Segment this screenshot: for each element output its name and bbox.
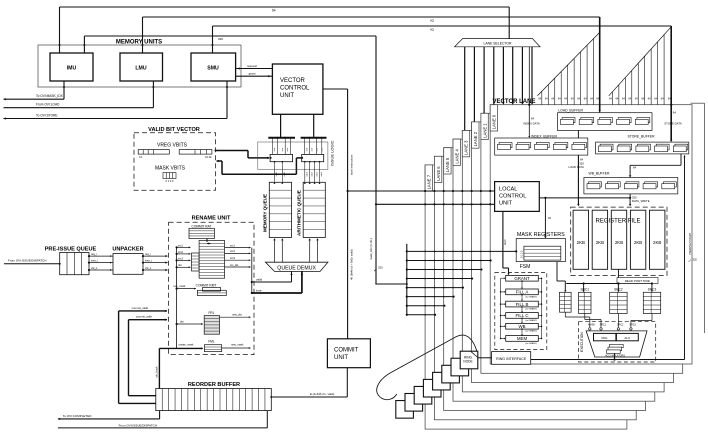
table RAT bbox=[199, 241, 225, 279]
svg-text:UNIT: UNIT bbox=[280, 93, 294, 99]
bus mask bits to lanes bbox=[375, 283, 407, 285]
svg-text:instr: instr bbox=[320, 147, 323, 151]
svg-text:COMMIT RMT: COMMIT RMT bbox=[196, 283, 217, 287]
svg-text:start: start bbox=[503, 239, 507, 245]
wire From OVI:ISSUE/DISPATCH into pre-issue queue bbox=[4, 263, 60, 265]
svg-text:40: 40 bbox=[548, 216, 552, 220]
svg-text:DATA_WRITE: DATA_WRITE bbox=[632, 199, 650, 203]
svg-text:STORE_BUFFER: STORE_BUFFER bbox=[628, 134, 656, 138]
wire vreg vbits to issue logic bbox=[215, 150, 217, 152]
svg-text:64: 64 bbox=[635, 97, 638, 100]
svg-text:instr: instr bbox=[305, 147, 308, 151]
svg-text:vld_o: vld_o bbox=[145, 266, 152, 270]
svg-text:SRC1: SRC1 bbox=[600, 323, 607, 326]
svg-text:VECTOR: VECTOR bbox=[280, 78, 306, 84]
svg-text:64: 64 bbox=[628, 97, 631, 100]
svg-text:64: 64 bbox=[564, 97, 567, 100]
ring node boxes bbox=[396, 401, 414, 419]
svg-text:REGISTER FILE: REGISTER FILE bbox=[595, 219, 640, 225]
svg-text:valid: valid bbox=[307, 172, 309, 176]
svg-text:valid: valid bbox=[311, 172, 313, 176]
register stack MASK bbox=[560, 292, 572, 312]
svg-text:64: 64 bbox=[661, 97, 664, 100]
svg-text:LOAD_BUFFER: LOAD_BUFFER bbox=[558, 109, 583, 113]
container RENAME UNIT bbox=[169, 222, 254, 354]
svg-text:INDEX DATA: INDEX DATA bbox=[523, 122, 540, 126]
bus bar right bbox=[301, 137, 327, 139]
svg-text:VSEW/VL/VSTART: VSEW/VL/VSTART bbox=[688, 232, 692, 255]
svg-text:31 32: 31 32 bbox=[205, 155, 212, 159]
svg-text:QUEUE DEMUX: QUEUE DEMUX bbox=[277, 265, 316, 271]
svg-text:To OVI:STORE: To OVI:STORE bbox=[36, 113, 58, 117]
svg-text:ARITHMETIC QUEUE: ARITHMETIC QUEUE bbox=[297, 190, 302, 236]
svg-text:SRC3: SRC3 bbox=[648, 288, 657, 292]
fsm left rail bbox=[500, 278, 502, 338]
svg-text:LANE 1: LANE 1 bbox=[482, 123, 487, 138]
wires stacks to execution bbox=[564, 312, 566, 317]
block MUL bbox=[594, 333, 616, 340]
svg-text:instr: instr bbox=[315, 147, 318, 151]
svg-text:src3: src3 bbox=[178, 256, 183, 260]
svg-text:GRANT: GRANT bbox=[514, 276, 530, 281]
container EXECUTION bbox=[579, 322, 656, 362]
svg-text:CONTROL: CONTROL bbox=[499, 194, 526, 200]
svg-text:valid: valid bbox=[316, 172, 318, 176]
svg-text:valid: valid bbox=[276, 172, 278, 176]
wire To OVI:MASK_IDX bbox=[63, 81, 65, 99]
container MEMORY UNITS bbox=[38, 45, 241, 87]
svg-text:LOAD DATA: LOAD DATA bbox=[568, 165, 584, 169]
svg-text:use_mask: use_mask bbox=[174, 284, 187, 288]
pins issue to arithmetic queue bbox=[304, 162, 306, 182]
wire From OVI:LOAD bbox=[4, 107, 154, 109]
svg-text:READ PORT 5'64b: READ PORT 5'64b bbox=[625, 279, 651, 283]
svg-text:UNIT: UNIT bbox=[499, 201, 513, 207]
arrows demux to queues bbox=[274, 240, 276, 263]
container issue logic bbox=[258, 142, 328, 169]
svg-text:instr: instr bbox=[256, 288, 262, 292]
svg-text:LANE 4: LANE 4 bbox=[454, 148, 459, 163]
ring node front bbox=[460, 351, 478, 369]
wire issue logic to mask vbits bbox=[296, 157, 301, 159]
svg-text:grant: grant bbox=[249, 72, 256, 76]
wire data write 320 into register file bbox=[629, 194, 631, 205]
svg-text:To OVI:MASK_IDX: To OVI:MASK_IDX bbox=[36, 94, 64, 98]
svg-text:LOCAL: LOCAL bbox=[499, 187, 517, 193]
block accumulators bbox=[610, 344, 624, 347]
wire create_mask bbox=[159, 347, 202, 349]
svg-text:instr: instr bbox=[310, 147, 313, 151]
svg-text:WB: WB bbox=[518, 324, 525, 329]
svg-text:64: 64 bbox=[648, 97, 651, 100]
svg-text:I/Q: I/Q bbox=[430, 19, 435, 23]
svg-text:64: 64 bbox=[272, 9, 276, 13]
block COMMIT UNIT bbox=[327, 339, 370, 368]
svg-text:SRC2: SRC2 bbox=[614, 288, 623, 292]
svg-text:FILL B: FILL B bbox=[516, 302, 529, 307]
svg-text:320: 320 bbox=[693, 257, 698, 261]
svg-text:instr: instr bbox=[286, 147, 289, 151]
svg-text:src2: src2 bbox=[230, 249, 235, 253]
execution trapezoid bbox=[586, 331, 647, 357]
svg-text:VREG VBITS: VREG VBITS bbox=[157, 142, 188, 148]
wire start instruction bbox=[323, 88, 348, 90]
svg-text:start instruction: start instruction bbox=[350, 154, 354, 175]
svg-text:WB_BUFFER: WB_BUFFER bbox=[589, 172, 610, 176]
svg-text:dst: dst bbox=[178, 263, 182, 267]
container VALID BIT VECTOR bbox=[134, 133, 216, 191]
block SMU bbox=[191, 53, 236, 81]
svg-text:RENAME UNIT: RENAME UNIT bbox=[192, 216, 231, 222]
svg-text:new_dst: new_dst bbox=[232, 312, 242, 316]
svg-text:LANE 2: LANE 2 bbox=[473, 131, 478, 146]
svg-text:req_i: req_i bbox=[91, 252, 97, 256]
wire rob_back bbox=[158, 348, 160, 388]
svg-text:dst: dst bbox=[180, 319, 184, 323]
fsm state transition dots bbox=[521, 281, 523, 289]
svg-text:FILL A: FILL A bbox=[516, 290, 529, 295]
svg-text:64: 64 bbox=[654, 97, 657, 100]
svg-text:E (4+64b id + valid): E (4+64b id + valid) bbox=[310, 392, 334, 396]
svg-text:FRL: FRL bbox=[208, 311, 214, 315]
svg-text:64: 64 bbox=[641, 97, 644, 100]
svg-text:To OVI:COMPLETED: To OVI:COMPLETED bbox=[63, 414, 93, 418]
svg-text:ACCUMULATORS: ACCUMULATORS bbox=[605, 354, 625, 357]
svg-text:From OVI:ISSUE/DISPATCH: From OVI:ISSUE/DISPATCH bbox=[8, 259, 46, 263]
block REGISTER FILE bbox=[571, 207, 667, 275]
svg-text:64: 64 bbox=[615, 97, 618, 100]
wire load data bold into LOAD_BUFFER bbox=[599, 17, 601, 111]
svg-text:CONTROL: CONTROL bbox=[280, 86, 310, 92]
wire imu line into LCU bbox=[376, 203, 495, 205]
svg-text:MASK REGISTERS: MASK REGISTERS bbox=[517, 232, 565, 238]
wire LCU to mask registers bbox=[539, 197, 630, 199]
wire To OVI:STORE bbox=[4, 118, 228, 120]
svg-text:I/Q: I/Q bbox=[430, 28, 435, 32]
block LMU bbox=[120, 53, 163, 81]
wire mask registers to mask read stack bbox=[556, 262, 558, 281]
wire LCU to FSM start bbox=[502, 211, 504, 268]
block RING INTERFACE bbox=[478, 357, 492, 359]
wires rename outputs to collector bbox=[251, 248, 253, 293]
wire valid into demux bbox=[252, 281, 292, 283]
svg-text:UNPACKER: UNPACKER bbox=[112, 247, 143, 253]
svg-text:rob_back: rob_back bbox=[155, 366, 159, 378]
svg-text:req_i: req_i bbox=[145, 252, 151, 256]
block MEMORY QUEUE bbox=[269, 182, 291, 237]
svg-text:2KB: 2KB bbox=[596, 240, 604, 245]
wire commit_addr bbox=[129, 319, 168, 321]
block issue slot arithmetic bbox=[302, 154, 324, 161]
svg-text:FML: FML bbox=[208, 339, 215, 343]
svg-text:NODE: NODE bbox=[463, 359, 472, 363]
wires queue to unpacker bbox=[89, 255, 113, 257]
svg-text:src2: src2 bbox=[178, 250, 183, 254]
svg-text:LANE SELECTOR: LANE SELECTOR bbox=[483, 41, 512, 45]
block LOCAL CONTROL UNIT bbox=[495, 182, 540, 212]
svg-text:0 1 2 3: 0 1 2 3 bbox=[521, 250, 524, 258]
svg-text:320: 320 bbox=[218, 37, 223, 41]
svg-text:64: 64 bbox=[609, 97, 612, 100]
svg-text:src1: src1 bbox=[230, 243, 235, 247]
svg-text:src1: src1 bbox=[178, 243, 183, 247]
svg-text:64: 64 bbox=[673, 111, 677, 115]
svg-text:STORE DATA: STORE DATA bbox=[664, 122, 682, 126]
svg-text:(to GRANT): (to GRANT) bbox=[525, 319, 537, 322]
svg-text:FSM: FSM bbox=[520, 264, 531, 270]
svg-text:FILL C: FILL C bbox=[515, 313, 528, 318]
svg-text:RING INTERFACE: RING INTERFACE bbox=[496, 357, 527, 361]
svg-text:40 (8x4b id + 8x1b valid): 40 (8x4b id + 8x1b valid) bbox=[350, 249, 354, 280]
block issue slot memory bbox=[270, 154, 293, 161]
svg-text:instr: instr bbox=[281, 147, 284, 151]
block ARITHMETIC QUEUE bbox=[303, 182, 325, 237]
svg-text:SRC3: SRC3 bbox=[630, 323, 637, 326]
svg-text:MASK VBITS: MASK VBITS bbox=[155, 166, 186, 172]
svg-text:valid: valid bbox=[256, 277, 263, 281]
svg-text:ISSUE LOGIC: ISSUE LOGIC bbox=[330, 140, 335, 166]
svg-text:src_dst: src_dst bbox=[230, 263, 239, 267]
wire reorder buffer to commit unit bbox=[271, 396, 347, 398]
svg-text:EXECUTION: EXECUTION bbox=[580, 332, 584, 352]
svg-text:new_mask: new_mask bbox=[231, 343, 244, 347]
svg-text:SMU: SMU bbox=[207, 66, 219, 72]
svg-text:64: 64 bbox=[558, 97, 561, 100]
svg-text:MASK: MASK bbox=[588, 323, 595, 326]
svg-text:2KB: 2KB bbox=[653, 240, 661, 245]
svg-text:320: 320 bbox=[378, 265, 383, 269]
block VECTOR CONTROL UNIT bbox=[272, 64, 323, 114]
svg-text:MUL: MUL bbox=[602, 336, 609, 340]
bus bar left bbox=[268, 137, 295, 139]
pins issue to memory queue bbox=[274, 162, 276, 182]
svg-text:64: 64 bbox=[551, 97, 554, 100]
svg-text:LANE 7: LANE 7 bbox=[427, 174, 432, 189]
wire instr into demux bbox=[252, 292, 302, 294]
svg-text:valid: valid bbox=[284, 172, 286, 176]
svg-text:64: 64 bbox=[622, 97, 625, 100]
wire index data into INDEX_BUFFER bbox=[528, 47, 530, 137]
svg-text:MEMORY UNITS: MEMORY UNITS bbox=[116, 40, 162, 46]
svg-text:0 1: 0 1 bbox=[139, 155, 143, 159]
fsm state boxes bbox=[506, 275, 539, 281]
svg-text:COMMIT: COMMIT bbox=[334, 348, 359, 354]
svg-text:2KB: 2KB bbox=[615, 240, 623, 245]
wire new_dst bbox=[220, 316, 251, 318]
container vector lanes outer right edge bbox=[691, 102, 705, 104]
fan store data 64-bit lines bbox=[611, 92, 613, 105]
svg-text:instr: instr bbox=[273, 147, 276, 151]
wire store data bold bbox=[670, 26, 672, 105]
mux QUEUE DEMUX bbox=[265, 262, 328, 271]
svg-text:SRC1: SRC1 bbox=[581, 288, 590, 292]
svg-text:64: 64 bbox=[531, 117, 535, 121]
wire store-data bus from SMU to store fan bbox=[213, 25, 672, 27]
wire To OVI:COMPLETED bbox=[58, 418, 160, 420]
svg-text:LMU: LMU bbox=[135, 66, 146, 72]
svg-text:64: 64 bbox=[545, 97, 548, 100]
svg-text:64: 64 bbox=[584, 97, 587, 100]
svg-text:MEMORY QUEUE: MEMORY QUEUE bbox=[263, 194, 268, 232]
svg-text:vld_o: vld_o bbox=[91, 266, 98, 270]
svg-text:64: 64 bbox=[538, 97, 541, 100]
svg-text:request: request bbox=[247, 64, 257, 68]
fan load data 64-bit lines bbox=[541, 91, 543, 105]
wire request bbox=[236, 68, 273, 70]
svg-text:SRC2: SRC2 bbox=[617, 323, 624, 326]
svg-text:2KB: 2KB bbox=[577, 240, 585, 245]
ring loop wire bbox=[377, 335, 477, 400]
mux LANE SELECTOR bbox=[455, 39, 540, 47]
svg-text:VALID BIT VECTOR: VALID BIT VECTOR bbox=[148, 127, 200, 133]
container VECTOR LANES stack bbox=[425, 165, 627, 429]
svg-text:UNIT: UNIT bbox=[334, 355, 348, 361]
svg-text:(to GRANT): (to GRANT) bbox=[525, 342, 537, 345]
svg-text:PRE-ISSUE QUEUE: PRE-ISSUE QUEUE bbox=[45, 247, 97, 253]
wire execution output to store buffer bbox=[531, 359, 685, 361]
svg-text:64: 64 bbox=[590, 97, 593, 100]
wire load-data bus from LMU to load fan bbox=[143, 16, 600, 18]
block IMU bbox=[50, 53, 93, 81]
wire commit_valid bbox=[119, 310, 167, 312]
svg-text:(to GRANT): (to GRANT) bbox=[525, 330, 537, 333]
svg-text:mask_bits [0..NL]: mask_bits [0..NL] bbox=[369, 238, 373, 260]
svg-text:2KB: 2KB bbox=[634, 240, 642, 245]
svg-text:instr_i: instr_i bbox=[91, 258, 98, 262]
svg-text:0 1 2 3: 0 1 2 3 bbox=[166, 179, 174, 183]
svg-text:commit_valid: commit_valid bbox=[132, 306, 149, 310]
svg-text:LANE 6: LANE 6 bbox=[436, 166, 441, 181]
svg-text:valid: valid bbox=[321, 172, 323, 176]
svg-text:(to GRANT): (to GRANT) bbox=[525, 295, 537, 298]
wire store buffer to WB buffer 64 bbox=[680, 154, 682, 165]
block ALU bbox=[616, 333, 638, 340]
wire grant bbox=[236, 75, 273, 77]
svg-text:IMU: IMU bbox=[67, 66, 77, 72]
svg-text:instr_i: instr_i bbox=[145, 258, 152, 262]
svg-text:(to GRANT): (to GRANT) bbox=[525, 308, 537, 311]
rail rename inputs bbox=[176, 247, 178, 348]
wire start instruction into LCU bbox=[348, 190, 495, 192]
wires lane selector outputs bbox=[464, 47, 466, 132]
svg-text:COMMIT RAT: COMMIT RAT bbox=[192, 224, 212, 228]
svg-text:LANE 3: LANE 3 bbox=[464, 140, 469, 155]
fsm right feedback rail bbox=[541, 278, 543, 338]
svg-text:create_mask: create_mask bbox=[179, 343, 195, 347]
wire register file read port bbox=[617, 269, 619, 283]
wires unpacker to rename unit bbox=[143, 255, 168, 257]
svg-text:LANE 5: LANE 5 bbox=[445, 157, 450, 172]
wire From OVI:ISSUE/DISPATCH into reorder buffer bbox=[266, 411, 268, 428]
wire load data 320 into register file bbox=[577, 131, 579, 205]
svg-text:64: 64 bbox=[633, 166, 637, 170]
svg-text:From OVI:ISSUE/DISPATCH: From OVI:ISSUE/DISPATCH bbox=[119, 423, 157, 427]
wire 64-bit bus from IMU to lane selector bbox=[60, 6, 510, 8]
svg-text:LANE 0: LANE 0 bbox=[492, 114, 497, 129]
wire new_mask bbox=[222, 347, 251, 349]
svg-text:ALU: ALU bbox=[624, 336, 630, 340]
svg-text:64: 64 bbox=[571, 97, 574, 100]
svg-text:REORDER BUFFER: REORDER BUFFER bbox=[188, 382, 240, 388]
arrows read port to source registers bbox=[583, 284, 585, 291]
svg-text:MEM: MEM bbox=[517, 336, 528, 341]
wire IMU to local control unit / mask bus bbox=[84, 35, 376, 37]
svg-text:commit_addr: commit_addr bbox=[136, 315, 152, 319]
svg-text:64: 64 bbox=[577, 97, 580, 100]
svg-text:src3: src3 bbox=[230, 256, 235, 260]
svg-text:From OVI:LOAD: From OVI:LOAD bbox=[36, 103, 60, 107]
